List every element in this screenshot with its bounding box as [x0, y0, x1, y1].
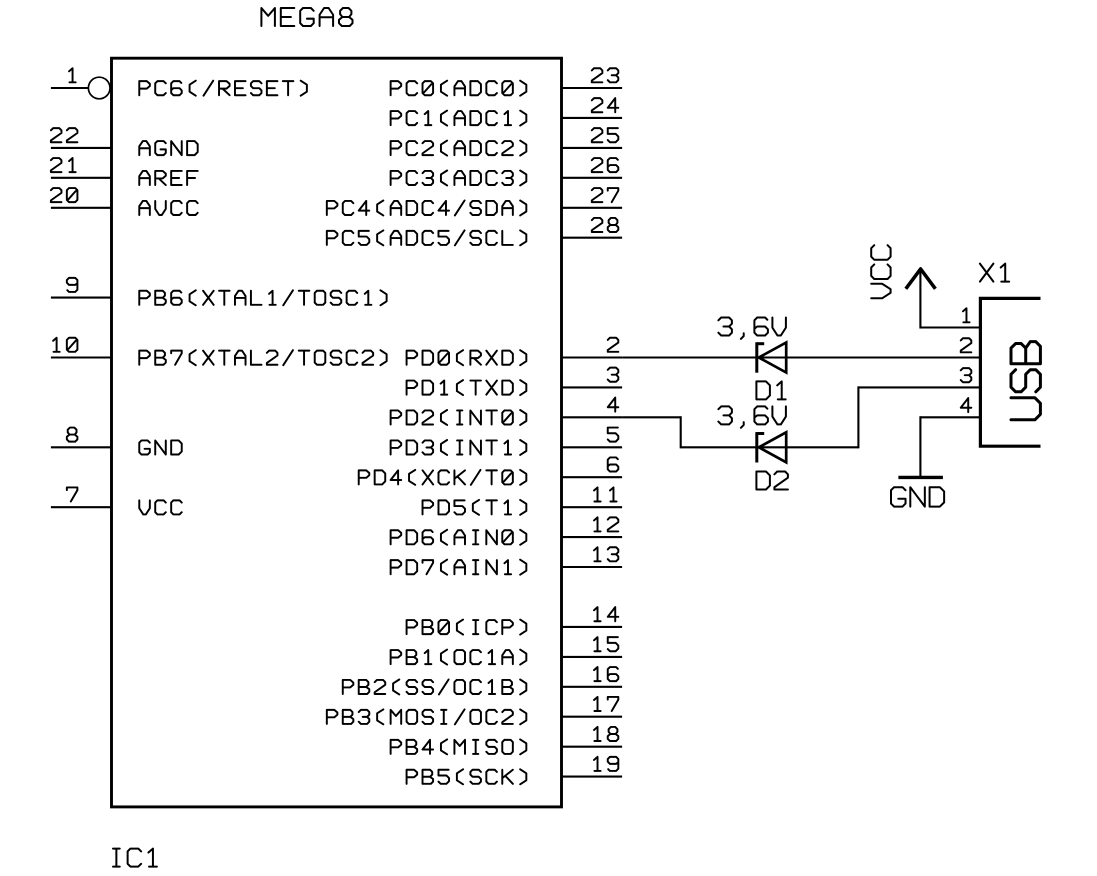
pin name PB1(OC1A) [391, 650, 527, 665]
pin number 8 [67, 428, 78, 442]
wire net D- : IC pin4 horizontal segment [622, 416, 681, 418]
pin name PC2(ADC2) [391, 141, 527, 156]
supply symbol VCC arrow chevron [906, 269, 936, 289]
IC IC1 MEGA8 body outline [112, 58, 562, 807]
pin number 13 [594, 547, 618, 561]
wire net D+ : IC pin2 to USB pin2 through D1 [622, 356, 980, 358]
pin number 21 [51, 158, 76, 172]
IC1 pin 22 wire (AGND) [51, 147, 112, 149]
wire net VCC : USB pin1 to VCC symbol [920, 326, 980, 328]
D2 zener hook [757, 432, 764, 435]
pin number 5 [608, 428, 619, 442]
D1 zener hook [757, 342, 764, 345]
pin name PC3(ADC3) [391, 171, 527, 186]
IC1 pin 1 wire (PC6(/RESET)) [51, 87, 89, 89]
IC1 pin 18 wire (PB4(MISO)) [562, 746, 623, 748]
pin number 10 [53, 338, 77, 352]
IC1 pin 23 wire (PC0(ADC0)) [562, 87, 623, 89]
pin number 12 [594, 517, 618, 531]
pin number 26 [592, 158, 619, 172]
pin number 22 [51, 128, 78, 142]
pin name PC1(ADC1) [391, 111, 527, 126]
IC1 pin 13 wire (PD7(AIN1)) [562, 566, 623, 568]
D1 anode triangle [759, 343, 786, 373]
pin name PD4(XCK/T0) [359, 470, 527, 485]
pin name PD5(T1) [423, 500, 527, 515]
IC1 pin 3 wire (PD1(TXD)) [562, 386, 623, 388]
IC1 pin 12 wire (PD6(AIN0)) [562, 536, 623, 538]
pin number 15 [594, 637, 618, 651]
IC1 pin 25 wire (PC2(ADC2)) [562, 147, 623, 149]
IC1 pin 15 wire (PB1(OC1A)) [562, 656, 623, 658]
IC1 pin 27 wire (PC4(ADC4/SDA)) [562, 207, 623, 209]
pin name VCC [139, 500, 181, 514]
pin number 23 [592, 68, 619, 82]
IC1 pin 7 wire (VCC) [51, 506, 112, 508]
pin number 19 [594, 757, 618, 771]
pin name AREF [139, 171, 197, 185]
pin name PD3(INT1) [391, 440, 527, 455]
IC1 pin 14 wire (PB0(ICP)) [562, 626, 623, 628]
pin name AVCC [139, 201, 197, 215]
IC1 pin 6 wire (PD4(XCK/T0)) [562, 476, 623, 478]
pin name PD0(RXD) [407, 350, 527, 365]
zener diode D1 cathode bar [755, 342, 758, 372]
supply symbol GND bar [898, 476, 943, 479]
wire net D- : horizontal through D2 [681, 446, 859, 448]
IC1 pin 5 wire (PD3(INT1)) [562, 446, 623, 448]
IC1 pin 21 wire (AREF) [51, 177, 112, 179]
IC1 pin 24 wire (PC1(ADC1)) [562, 117, 623, 119]
wire net D- : horizontal to USB pin3 [858, 386, 980, 388]
wire net VCC : vertical riser [919, 269, 921, 329]
IC1 pin 20 wire (AVCC) [51, 207, 112, 209]
wire net GND : vertical drop [919, 416, 921, 476]
pin number 25 [592, 128, 619, 142]
pin name PC5(ADC5/SCL) [327, 230, 526, 245]
supply label GND [891, 487, 944, 506]
IC1 pin 10 wire (PB7(XTAL2/TOSC2)) [51, 356, 112, 358]
pin name PB0(ICP) [407, 620, 527, 635]
pin number 3 [608, 368, 619, 382]
wire net GND : USB pin4 to GND symbol [920, 416, 980, 418]
IC1 pin 17 wire (PB3(MOSI/OC2)) [562, 716, 623, 718]
pin name PB5(SCK) [407, 769, 527, 784]
pin name PD1(TXD) [407, 380, 527, 395]
pin name PB6(XTAL1/TOSC1) [139, 290, 386, 305]
pin number 14 [594, 607, 618, 621]
pin number 2 [608, 338, 619, 352]
IC1 pin 11 wire (PD5(T1)) [562, 506, 623, 508]
pin number 6 [608, 457, 619, 471]
X1 pin 4 number [961, 398, 972, 412]
pin number 20 [51, 188, 78, 202]
X1 pin 2 number [961, 338, 972, 352]
pin number 18 [594, 727, 618, 741]
IC1 value label MEGA8 [261, 8, 352, 26]
pin name PC4(ADC4/SDA) [327, 201, 526, 216]
IC1 pin 8 wire (GND) [51, 446, 112, 448]
pin name PC0(ADC0) [391, 81, 527, 96]
pin number 24 [592, 98, 619, 112]
D2 value label 3,6V [718, 406, 786, 427]
X1 value label USB (rotated) [1011, 342, 1040, 420]
D2 name label [756, 472, 788, 490]
supply label VCC (rotated) [871, 245, 890, 298]
D1 name label [756, 381, 785, 399]
zener diode D2 cathode bar [755, 432, 758, 462]
pin name PD2(INT0) [391, 410, 527, 425]
IC1 pin 9 wire (PB6(XTAL1/TOSC1)) [51, 297, 112, 299]
pin number 4 [608, 398, 619, 412]
wire net D- : vertical jog down [680, 416, 682, 448]
pin number 16 [594, 667, 618, 681]
pin number 17 [594, 697, 618, 711]
pin name GND [139, 440, 181, 454]
pin number 11 [594, 487, 617, 501]
IC1 pin 19 wire (PB5(SCK)) [562, 776, 623, 778]
D1 value label 3,6V [718, 318, 786, 339]
pin name PB4(MISO) [391, 739, 527, 754]
IC1 pin 26 wire (PC3(ADC3)) [562, 177, 623, 179]
IC1 pin 4 wire (PD2(INT0)) [562, 416, 623, 418]
X1 pin 3 number [961, 368, 972, 382]
pin 1 inversion bubble [88, 77, 110, 99]
IC1 pin 2 wire (PD0(RXD)) [562, 356, 623, 358]
D2 anode triangle [759, 432, 786, 462]
pin name PD7(AIN1) [391, 560, 527, 575]
X1 pin 1 number [963, 308, 970, 322]
IC1 pin 28 wire (PC5(ADC5/SCL)) [562, 237, 623, 239]
pin number 7 [67, 487, 78, 501]
pin name PD6(AIN0) [391, 530, 527, 545]
pin number 1 [69, 68, 76, 82]
X1 name label [980, 264, 1009, 282]
pin name PB2(SS/OC1B) [343, 680, 527, 695]
pin name PC6(/RESET) [139, 81, 307, 96]
pin number 28 [592, 218, 619, 232]
connector X1 USB body (open bracket) [980, 298, 1040, 446]
IC1 name label [113, 849, 157, 867]
wire net D- : vertical jog up to USB pin3 [857, 386, 859, 448]
pin name PB7(XTAL2/TOSC2) [139, 350, 386, 365]
pin number 9 [67, 278, 78, 292]
pin name AGND [139, 141, 197, 155]
pin number 27 [592, 188, 619, 202]
IC1 pin 16 wire (PB2(SS/OC1B)) [562, 686, 623, 688]
pin name PB3(MOSI/OC2) [327, 709, 526, 724]
